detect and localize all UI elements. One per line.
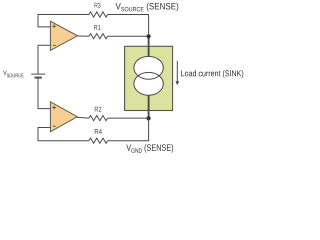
node bottom junction <box>147 116 151 120</box>
label VGND (SENSE) <box>126 144 173 153</box>
wire R1 to top node <box>108 35 149 37</box>
arrow load current <box>175 61 179 86</box>
wire R4 to bottom node <box>108 118 149 140</box>
load box <box>125 46 173 110</box>
resistor R3 <box>89 12 108 17</box>
wire U2 inverting input <box>38 128 89 141</box>
op-amp U1 <box>50 21 77 50</box>
battery VSOURCE <box>31 74 45 78</box>
label R3 <box>95 3 101 8</box>
wire R2 to bottom node <box>108 117 149 119</box>
label R2 <box>95 107 102 112</box>
wire U1 output <box>77 35 90 37</box>
wire U2 output <box>76 116 89 119</box>
op-amp U2 <box>50 102 77 132</box>
label R1 <box>94 25 100 30</box>
wire battery to U2 non-inverting input <box>38 78 50 109</box>
label R4 <box>95 129 102 134</box>
node top junction <box>147 34 151 38</box>
label VSOURCE <box>3 70 23 77</box>
current source I1 <box>134 56 163 95</box>
wire U1 inverting input to battery <box>38 45 50 74</box>
resistor R4 <box>89 138 108 143</box>
wire feedback top (to + input) <box>38 15 89 27</box>
resistor R1 <box>89 34 108 39</box>
wire R3 to top node <box>108 15 149 37</box>
wire load path vertical <box>148 36 150 118</box>
resistor R2 <box>89 116 108 121</box>
label Load current (SINK) <box>181 70 243 78</box>
label VSOURCE (SENSE) <box>116 3 179 12</box>
